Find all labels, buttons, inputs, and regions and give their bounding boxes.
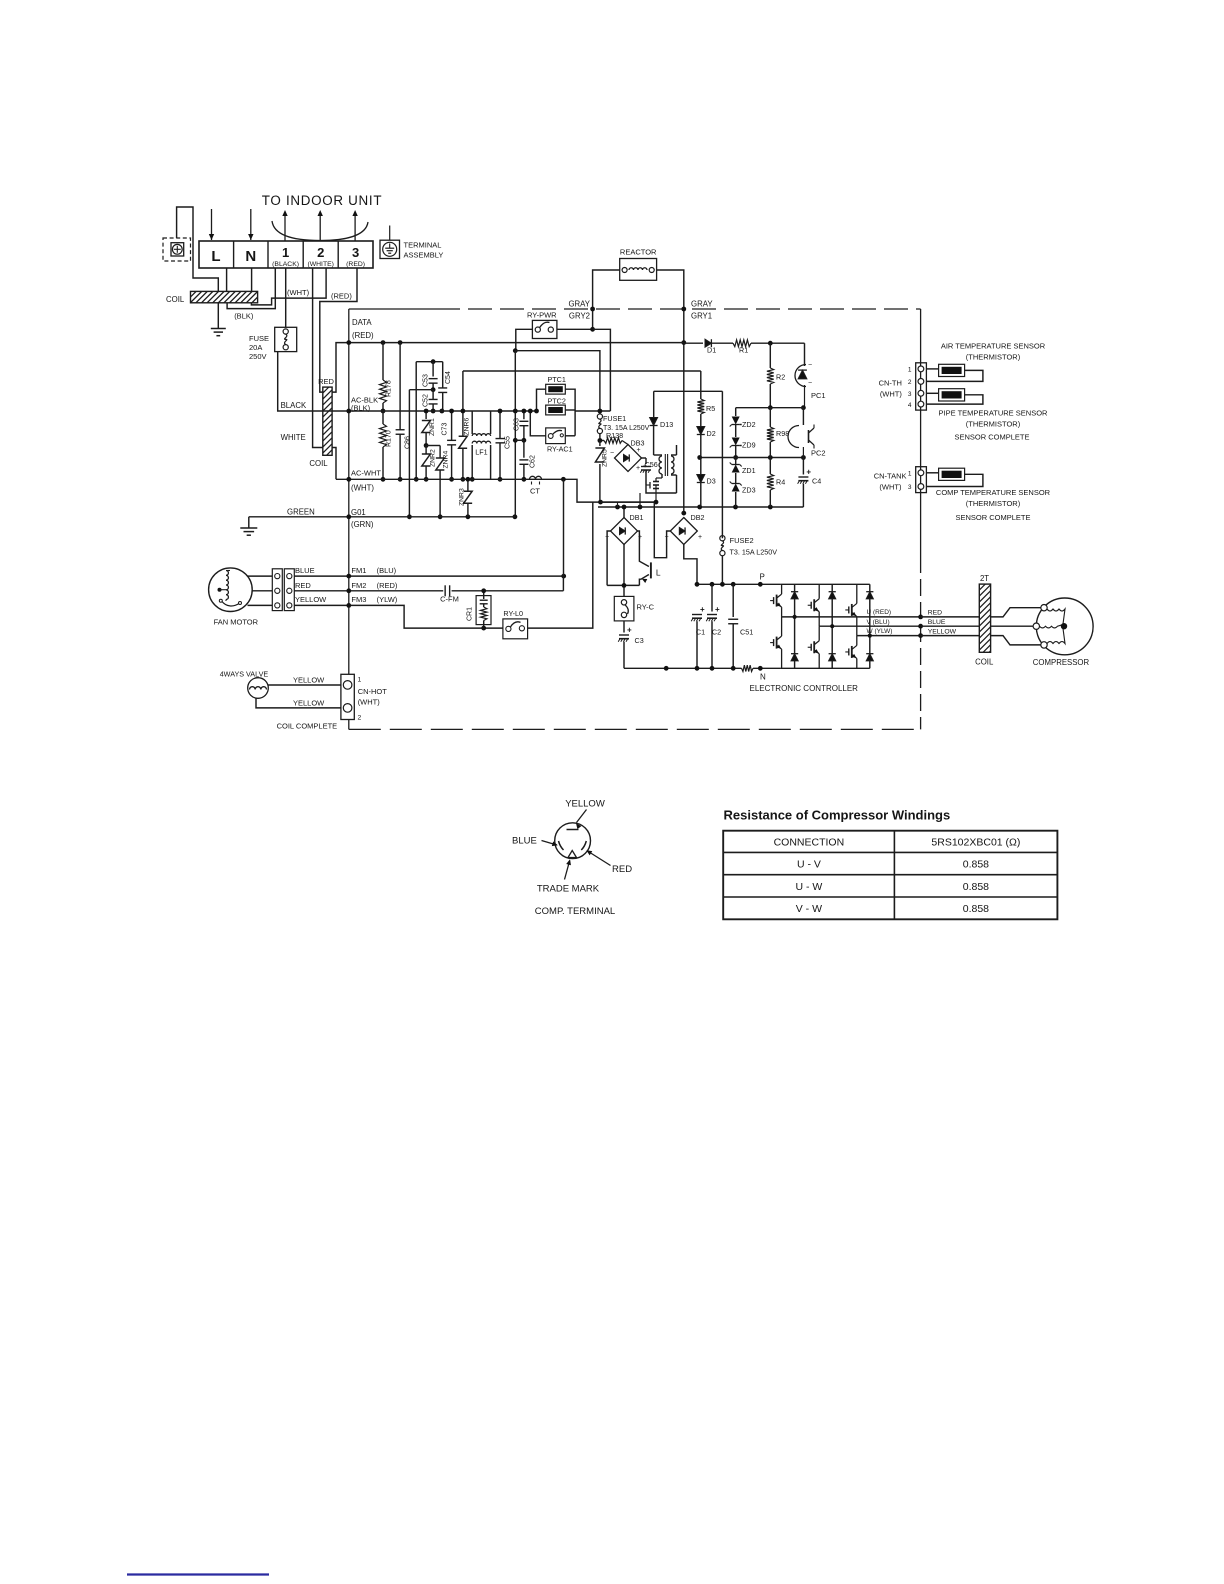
zener ZD2 [735,408,737,416]
resistor R2 [769,343,771,368]
svg-text:GRAY: GRAY [568,300,590,309]
compressor motor [1036,598,1093,655]
svg-text:C54: C54 [445,371,452,384]
svg-text:PTC2: PTC2 [548,397,566,406]
freewheel diode upper [794,584,796,591]
line filter LF1 [471,411,473,434]
svg-text:0.858: 0.858 [963,859,989,871]
wire AC to DB1 [623,507,625,518]
svg-text:R170: R170 [386,430,393,447]
svg-text:L: L [211,248,220,265]
svg-text:0.858: 0.858 [963,903,989,915]
zener ZD3 [732,484,740,492]
wire L emitter return to DB1 minus [607,584,639,586]
svg-text:RED: RED [612,864,632,875]
svg-text:+: + [806,468,811,477]
svg-text:YELLOW: YELLOW [928,629,957,636]
svg-text:T3. 15A L250V: T3. 15A L250V [730,548,778,557]
svg-text:SENSOR COMPLETE: SENSOR COMPLETE [954,433,1029,442]
(BLK) wire from terminal 1 [227,268,275,309]
svg-text:DB2: DB2 [691,513,705,522]
svg-text:COIL: COIL [309,459,328,468]
varistor ZNR3 [467,479,469,491]
svg-text:C51: C51 [740,628,753,637]
wire N to coil [251,268,253,291]
svg-text:1: 1 [908,471,912,478]
diode D13 [653,391,655,417]
wire to FUSE2 [721,391,723,538]
svg-text:Resistance of Compressor Windi: Resistance of Compressor Windings [724,808,951,823]
capacitor C1 [696,584,698,611]
svg-text:4: 4 [908,402,912,409]
capacitor C63 [523,411,525,419]
pipe thermistor [939,389,965,401]
svg-text:2: 2 [317,245,324,260]
wire C-cluster to AC-WHT [415,362,417,480]
PCB bottom border (dashed) [349,728,921,730]
svg-text:3: 3 [908,391,912,398]
svg-text:COMP TEMPERATURE SENSOR: COMP TEMPERATURE SENSOR [936,488,1051,497]
capacitor C2 [711,584,713,611]
MOSFET Q [661,474,663,478]
svg-text:PC2: PC2 [811,449,826,458]
svg-text:FM3: FM3 [351,595,366,604]
PCB right border [920,309,922,556]
svg-text:FM2: FM2 [351,581,366,590]
footer blue line [127,1573,269,1575]
svg-text:C-FM: C-FM [440,595,459,604]
svg-text:(YLW): (YLW) [377,595,398,604]
trade mark pointer [565,861,570,880]
connector CN-TANK [916,467,927,493]
fan connector [272,569,282,611]
svg-text:CR1: CR1 [467,607,474,621]
svg-text:C86: C86 [405,436,412,449]
svg-text:(THERMISTOR): (THERMISTOR) [966,499,1021,508]
IGBT lower [818,626,820,641]
svg-text:P: P [760,573,765,582]
svg-text:ZNR5: ZNR5 [602,449,609,467]
svg-text:+: + [700,605,705,614]
svg-text:N: N [760,673,766,682]
wire D13 feed line [654,390,723,392]
varistor ZNR2 [422,454,431,466]
IGBT upper [818,584,820,598]
arrow out of 3 [354,214,356,241]
svg-text:REACTOR: REACTOR [620,248,657,257]
svg-text:COIL: COIL [166,295,185,304]
V output [819,625,920,627]
yellow pointer [577,810,587,823]
capacitor C51 [732,584,734,617]
svg-text:ZD3: ZD3 [742,486,756,495]
svg-text:FUSE2: FUSE2 [730,536,754,545]
svg-text:CONNECTION: CONNECTION [774,837,845,849]
red pointer [588,851,611,866]
capacitor C62 [523,440,525,457]
capacitor C53 [416,361,443,363]
wire coil to AC-WHT line [332,448,336,480]
svg-text:(THERMISTOR): (THERMISTOR) [966,353,1021,362]
terminal assembly symbol [380,240,400,258]
transformer T [654,454,662,456]
svg-text:R4: R4 [776,478,785,487]
svg-text:YELLOW: YELLOW [565,799,605,810]
svg-text:ZNR6: ZNR6 [464,418,471,436]
svg-text:C3: C3 [635,636,644,645]
wire reactor left to GRAY junction [593,270,620,329]
svg-text:D1: D1 [707,346,716,355]
IGBT upper [856,584,858,603]
freewheel diode lower [831,626,833,653]
svg-text:U - V: U - V [797,859,821,871]
svg-text:0.858: 0.858 [963,881,989,893]
resistor R170 [382,411,384,424]
resistor R98 [769,408,771,427]
svg-text:BLACK: BLACK [281,401,307,410]
current transformer CT [530,476,542,479]
svg-text:COMP. TERMINAL: COMP. TERMINAL [535,906,615,917]
svg-text:V - W: V - W [796,903,822,915]
mid aux bus [700,457,804,459]
IGBT lower [856,636,858,646]
svg-text:FUSE: FUSE [249,334,269,343]
svg-text:YELLOW: YELLOW [293,699,325,708]
capacitor C54 [442,362,444,388]
wires to compressor coil [921,616,980,618]
wire C53 node branch [408,390,410,517]
svg-text:RY-C: RY-C [637,603,655,612]
wire coil to compressor W [991,636,1044,645]
svg-text:FUSE1: FUSE1 [603,414,626,423]
svg-text:−: − [808,380,812,387]
svg-text:C73: C73 [442,423,449,436]
wire RY-PWR right to gray drop [557,328,593,330]
fan wires [248,575,273,577]
resistor R1 [712,342,733,344]
svg-text:R5: R5 [706,404,715,413]
(WHT) wire from terminal 2 [251,268,326,305]
blue terminal mark [559,841,564,850]
DC common bus [601,501,655,503]
svg-text:V (BLU): V (BLU) [867,619,890,626]
svg-text:3: 3 [352,245,359,260]
svg-text:PTC1: PTC1 [548,375,566,384]
PCB top border / GRAY line (dashed) [349,308,436,310]
arrow out of 2 [319,214,321,241]
svg-text:CN-TANK: CN-TANK [874,472,907,481]
svg-text:C63: C63 [514,418,521,431]
svg-text:ZNR2: ZNR2 [430,449,437,467]
svg-text:RED: RED [928,610,942,617]
svg-text:AC-WHT: AC-WHT [351,469,381,478]
svg-text:GRAY: GRAY [691,300,713,309]
wire gray drop to PTC feed [593,329,611,411]
svg-text:R178: R178 [386,380,393,397]
svg-text:ELECTRONIC CONTROLLER: ELECTRONIC CONTROLLER [750,684,859,693]
capacitor C52 [432,390,434,399]
yellow terminal mark [567,829,579,831]
svg-text:(GRN): (GRN) [351,520,374,529]
wire RY-AC1 left bracket [530,411,545,436]
svg-text:(WHT): (WHT) [351,484,374,493]
svg-text:C52: C52 [423,394,430,407]
wire L to coil [226,268,228,291]
wire DB2 to P rail [684,545,697,585]
wire FM1 junction to AC-WHT [563,479,565,576]
svg-text:5RS102XBC01 (Ω): 5RS102XBC01 (Ω) [931,837,1020,849]
IGBT upper [781,584,783,594]
svg-text:2: 2 [358,715,362,722]
wire DB1 to RY-C [623,545,625,597]
capacitor C55 [499,411,501,439]
svg-text:COIL: COIL [975,658,994,667]
varistor ZNR4 [426,445,440,447]
resistor R5 [700,371,702,399]
comp terminal circle [555,823,591,859]
PTC bracket left [537,389,546,411]
svg-text:TO INDOOR UNIT: TO INDOOR UNIT [262,193,382,208]
svg-text:YELLOW: YELLOW [295,595,327,604]
svg-text:+: + [637,447,641,454]
svg-text:RY-AC1: RY-AC1 [547,445,573,454]
fuse 20A 250V [285,268,287,327]
svg-text:ZNR3: ZNR3 [459,488,466,506]
svg-text:20A: 20A [249,343,262,352]
svg-text:1: 1 [282,245,289,260]
svg-text:2T: 2T [980,574,989,583]
freewheel diode upper [869,584,871,591]
photocoupler PC1 [795,365,806,387]
svg-text:250V: 250V [249,352,267,361]
connector CN-TH [916,363,927,410]
svg-text:BLUE: BLUE [295,566,315,575]
svg-text:FM1: FM1 [351,566,366,575]
ground for green wire [248,517,250,528]
terminal block L N 1 2 3 [199,241,373,268]
table [723,831,1057,920]
resistor R4 [769,458,771,475]
wire RY-PWR left down to FUSE1 feed [516,329,533,350]
svg-text:TERMINAL: TERMINAL [404,241,442,250]
svg-text:LF1: LF1 [475,448,487,457]
svg-text:+: + [636,465,640,472]
svg-text:AIR TEMPERATURE SENSOR: AIR TEMPERATURE SENSOR [941,342,1046,351]
IGBT lower [781,617,783,636]
svg-text:GRY1: GRY1 [691,312,712,321]
arrow out of 1 [284,214,286,241]
svg-text:−: − [610,450,614,457]
wire reactor right down to DB2 [657,270,684,513]
svg-text:(WHT): (WHT) [358,698,381,707]
wire from earth terminal to coil [177,207,219,291]
svg-text:C2: C2 [712,628,721,637]
upper aux bus [736,407,804,409]
svg-text:(BLU): (BLU) [377,566,397,575]
wire coil to compressor U [991,608,1044,617]
svg-text:−: − [808,362,812,369]
svg-text:C1: C1 [696,628,705,637]
diode D2 [697,427,705,435]
svg-text:(RED): (RED) [346,261,365,268]
ground below coil [217,303,219,329]
svg-text:RED: RED [318,377,334,386]
svg-text:(RED): (RED) [352,331,374,340]
svg-text:PC1: PC1 [811,391,826,400]
varistor ZNR5 [599,441,601,447]
capacitor C73 [451,411,453,440]
svg-text:(WHT): (WHT) [879,483,902,492]
svg-text:N: N [245,248,256,265]
fuse FUSE1 [597,414,602,419]
earth screw terminal (dashed box) [163,238,191,261]
svg-text:DATA: DATA [352,318,372,327]
svg-text:+: + [698,534,702,541]
svg-text:TRADE MARK: TRADE MARK [537,884,600,895]
MOSFET loop [646,480,677,493]
zener ZD1 [735,458,737,465]
svg-text:PIPE TEMPERATURE SENSOR: PIPE TEMPERATURE SENSOR [939,409,1048,418]
wire RY-L0 riser junction [665,667,667,669]
arrow into N [250,209,252,240]
resistor R138 [599,434,601,441]
red terminal mark [581,841,586,850]
svg-text:(RED): (RED) [331,292,352,301]
svg-text:WHITE: WHITE [281,433,306,442]
transistor L [638,531,649,567]
svg-text:YELLOW: YELLOW [293,676,325,685]
svg-text:C4: C4 [812,477,821,486]
svg-text:2: 2 [908,379,912,386]
fuse FUSE2 [720,536,725,541]
compressor windings [1047,609,1065,624]
svg-text:CN-TH: CN-TH [879,379,902,388]
svg-text:1: 1 [358,677,362,684]
svg-text:RY-L0: RY-L0 [503,609,523,618]
photocoupler PC2 [788,426,799,448]
fan motor [209,568,253,612]
svg-text:D13: D13 [660,420,673,429]
capacitor C86 [399,343,401,430]
N rail with shunt [624,667,742,669]
comp thermistor [939,468,965,480]
svg-text:ASSEMBLY: ASSEMBLY [404,251,444,260]
bus to R5 top [463,370,701,372]
svg-text:CN-HOT: CN-HOT [358,687,388,696]
cable bundle arc [272,221,368,241]
wire feed line to FUSE1 [515,351,600,414]
svg-text:D3: D3 [707,477,716,486]
svg-text:FAN MOTOR: FAN MOTOR [214,618,259,627]
U output [782,616,921,618]
svg-text:BLUE: BLUE [928,619,946,626]
svg-text:D2: D2 [707,429,716,438]
svg-text:GREEN: GREEN [287,508,315,517]
WHITE wire to coil [313,268,323,448]
svg-text:ZD9: ZD9 [742,441,756,450]
svg-text:(WHITE): (WHITE) [307,261,333,268]
freewheel diode lower [869,636,871,654]
zener ZD9 [732,438,740,446]
wire AC-WHT to DB2 [654,502,670,558]
arrow into L [211,209,213,240]
svg-text:3: 3 [908,484,912,491]
svg-text:C55: C55 [505,436,512,449]
svg-text:1: 1 [908,367,912,374]
svg-text:U - W: U - W [795,881,822,893]
svg-text:+: + [627,626,632,635]
blue pointer [542,841,557,846]
svg-text:G01: G01 [351,508,366,517]
svg-text:R2: R2 [776,373,785,382]
varistor ZNR1 [425,411,427,419]
inverter P rail right part [781,583,870,585]
inverter N rail right part [781,667,870,669]
freewheel diode lower [794,617,796,654]
svg-text:4WAYS VALVE: 4WAYS VALVE [220,670,269,679]
svg-text:L: L [656,568,661,578]
svg-text:(BLACK): (BLACK) [272,261,299,268]
AC-WHT step to DB section [563,479,654,502]
svg-text:RY-PWR: RY-PWR [527,311,557,320]
trade mark triangle [568,851,577,858]
svg-text:(WHT): (WHT) [287,288,310,297]
svg-text:BLUE: BLUE [512,836,537,847]
svg-text:ZD1: ZD1 [742,466,756,475]
resistor R178 [382,343,384,380]
svg-text:RED: RED [295,581,311,590]
diode D1 [684,342,703,344]
varistor ZNR6 [462,371,464,437]
wire RY-LO to DC common [528,502,593,628]
wire coil to compressor V [991,625,1037,627]
wire RYPWR feed crossing down to G01 [514,351,516,441]
freewheel diode upper [831,584,833,591]
sensor bus wire [920,309,922,729]
svg-text:(RED): (RED) [377,581,398,590]
compressor terminals [1041,605,1047,611]
svg-text:(WHT): (WHT) [880,390,903,399]
svg-text:DB1: DB1 [630,513,644,522]
capacitor C4 [802,458,804,475]
svg-text:(BLK): (BLK) [234,312,254,321]
svg-text:R1: R1 [739,346,748,355]
wire PTC to FUSE1 [575,410,610,412]
svg-text:GRY2: GRY2 [569,312,590,321]
svg-text:COIL COMPLETE: COIL COMPLETE [277,722,338,731]
air thermistor [939,364,965,376]
connector CN-HOT [341,674,354,719]
wire fuse to BLACK line [278,352,323,411]
svg-text:ZD2: ZD2 [742,420,756,429]
svg-text:CT: CT [530,487,540,496]
relay RY-C [614,596,634,621]
svg-text:C53: C53 [423,374,430,387]
svg-text:ZNR1: ZNR1 [429,418,436,436]
resistor CR1 [476,596,491,625]
relay RY-AC1 [546,428,566,444]
svg-text:W (YLW): W (YLW) [867,628,893,635]
svg-text:(THERMISTOR): (THERMISTOR) [966,420,1021,429]
svg-text:C62: C62 [530,455,537,468]
W output [857,635,921,637]
PTC bracket right [565,389,575,436]
svg-text:R98: R98 [776,429,789,438]
svg-text:SENSOR COMPLETE: SENSOR COMPLETE [955,513,1030,522]
svg-text:+: + [715,605,720,614]
svg-text:ZNR4: ZNR4 [443,451,450,469]
(RED) wire from terminal 3 [320,268,357,392]
